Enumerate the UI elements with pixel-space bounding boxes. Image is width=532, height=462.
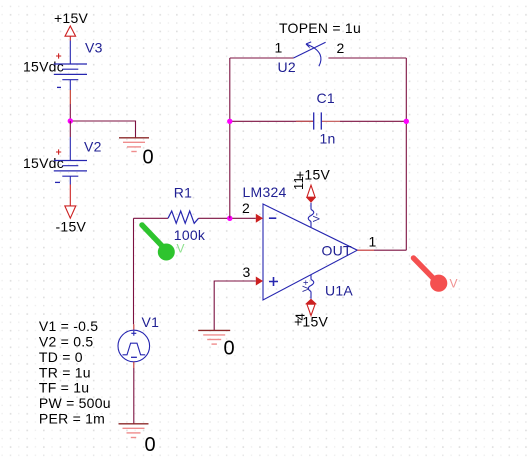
svg-text:OUT: OUT bbox=[322, 243, 353, 259]
wire C1 row left bbox=[230, 120, 314, 122]
svg-text:V2: V2 bbox=[84, 139, 102, 155]
svg-text:V2 = 0.5: V2 = 0.5 bbox=[39, 333, 94, 349]
svg-text:3: 3 bbox=[243, 264, 251, 280]
junction C1 right bbox=[404, 119, 409, 124]
probe marker red (output) bbox=[414, 258, 458, 292]
wire node to ground bbox=[70, 121, 135, 138]
junction R1/net bbox=[227, 216, 232, 221]
svg-text:V: V bbox=[177, 242, 185, 256]
svg-text:V1 = -0.5: V1 = -0.5 bbox=[39, 318, 98, 334]
svg-text:TOPEN = 1u: TOPEN = 1u bbox=[279, 20, 361, 36]
voltage source V2 bbox=[23, 137, 102, 185]
op-amp V+ power pin (bottom) bbox=[293, 275, 329, 330]
svg-text:U2: U2 bbox=[278, 59, 296, 75]
svg-text:2: 2 bbox=[242, 200, 250, 216]
wire input row left bbox=[134, 217, 169, 219]
ground 0 (V1) bbox=[119, 424, 156, 456]
probe marker green (input) bbox=[142, 225, 185, 261]
svg-text:2: 2 bbox=[337, 40, 345, 56]
svg-text:PER = 1m: PER = 1m bbox=[39, 411, 105, 427]
resistor R1 bbox=[168, 184, 206, 243]
svg-text:TF = 1u: TF = 1u bbox=[39, 380, 89, 396]
wire vertical net bbox=[229, 58, 231, 218]
voltage source V1 (pulse) bbox=[118, 314, 159, 368]
svg-text:V-: V- bbox=[312, 213, 323, 222]
svg-text:11: 11 bbox=[291, 176, 306, 190]
switch U2 bbox=[275, 20, 362, 75]
svg-text:V: V bbox=[450, 277, 458, 291]
svg-text:+15V: +15V bbox=[294, 314, 328, 330]
svg-text:0: 0 bbox=[145, 434, 156, 456]
svg-text:1: 1 bbox=[275, 40, 283, 56]
wire V1 to ground bbox=[133, 368, 135, 424]
svg-text:V3: V3 bbox=[85, 40, 103, 56]
ground 0 (top) bbox=[119, 138, 154, 169]
pin 1 output wire bbox=[357, 234, 406, 251]
svg-text:R1: R1 bbox=[174, 184, 192, 200]
wire right vertical bbox=[405, 58, 407, 250]
svg-text:PW = 500u: PW = 500u bbox=[39, 395, 111, 411]
svg-text:V1: V1 bbox=[142, 314, 160, 330]
junction V3/V2/ground bbox=[68, 118, 73, 123]
svg-text:V+: V+ bbox=[301, 279, 312, 292]
op-amp V- power pin (top) bbox=[291, 167, 330, 228]
capacitor C1 bbox=[296, 90, 340, 147]
svg-text:0: 0 bbox=[224, 338, 235, 360]
svg-text:U1A: U1A bbox=[325, 283, 353, 299]
pin 3 arrow bbox=[243, 264, 264, 286]
power symbol -15V bbox=[56, 185, 87, 235]
svg-text:C1: C1 bbox=[317, 90, 335, 106]
wire pin3 to ground bbox=[214, 281, 256, 330]
svg-text:TD = 0: TD = 0 bbox=[39, 349, 83, 365]
wire switch to corner bbox=[328, 57, 406, 59]
V1 parameter text bbox=[39, 318, 111, 427]
ground 0 (pin 3) bbox=[198, 330, 235, 359]
wire V1 riser bbox=[133, 218, 135, 324]
svg-text:+15V: +15V bbox=[54, 10, 88, 26]
svg-text:15Vdc: 15Vdc bbox=[23, 155, 64, 171]
voltage source V3 bbox=[23, 40, 103, 105]
wire top rail to switch bbox=[230, 57, 294, 59]
svg-text:-15V: -15V bbox=[56, 219, 87, 235]
wire V3 to node bbox=[69, 104, 71, 121]
pin 2 arrow bbox=[242, 200, 263, 223]
svg-text:15Vdc: 15Vdc bbox=[23, 59, 64, 75]
svg-text:1n: 1n bbox=[320, 131, 336, 147]
junction C1 left bbox=[227, 119, 232, 124]
wire R1 to node bbox=[199, 217, 256, 219]
svg-text:0: 0 bbox=[143, 147, 154, 169]
svg-text:LM324: LM324 bbox=[243, 184, 287, 200]
op-amp U1A bbox=[243, 184, 358, 300]
svg-text:TR = 1u: TR = 1u bbox=[39, 364, 91, 380]
wire node to V2 bbox=[69, 121, 71, 137]
wire C1 row right bbox=[340, 120, 406, 122]
svg-text:1: 1 bbox=[369, 234, 377, 250]
power symbol +15V bbox=[54, 10, 88, 41]
